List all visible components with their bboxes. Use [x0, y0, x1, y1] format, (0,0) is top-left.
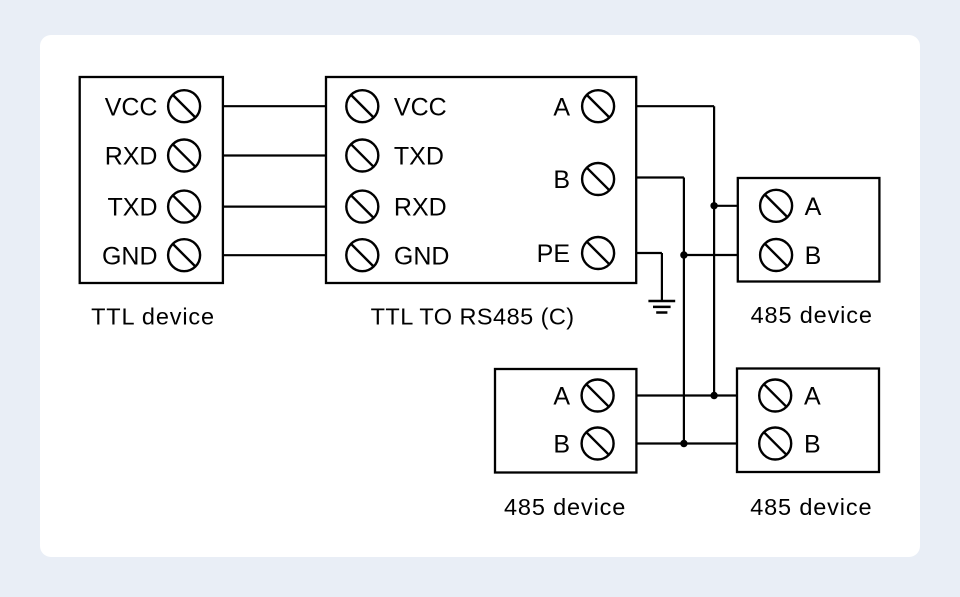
svg-text:PE: PE: [537, 240, 570, 268]
svg-text:TXD: TXD: [394, 143, 444, 171]
svg-text:B: B: [805, 242, 822, 270]
svg-text:GND: GND: [102, 242, 158, 270]
svg-text:TTL device: TTL device: [91, 303, 215, 329]
svg-text:RXD: RXD: [394, 194, 447, 222]
svg-text:TXD: TXD: [108, 194, 158, 222]
svg-text:A: A: [553, 383, 570, 411]
svg-text:A: A: [553, 93, 570, 121]
svg-text:RXD: RXD: [105, 143, 158, 171]
svg-text:485 device: 485 device: [751, 302, 873, 328]
svg-text:B: B: [553, 166, 570, 194]
svg-text:TTL TO RS485 (C): TTL TO RS485 (C): [371, 303, 575, 329]
svg-text:VCC: VCC: [394, 93, 447, 121]
svg-text:485 device: 485 device: [504, 494, 626, 520]
svg-text:B: B: [804, 431, 821, 459]
svg-text:A: A: [804, 383, 821, 411]
svg-text:B: B: [553, 431, 570, 459]
svg-text:GND: GND: [394, 242, 450, 270]
svg-text:VCC: VCC: [105, 93, 158, 121]
svg-text:485 device: 485 device: [750, 494, 872, 520]
svg-text:A: A: [805, 193, 822, 221]
